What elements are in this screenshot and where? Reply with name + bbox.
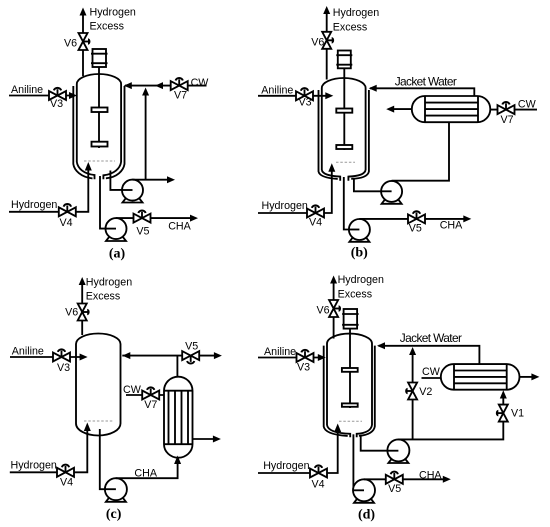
svg-text:Hydrogen: Hydrogen [333, 7, 379, 19]
wire hydrogen-excess vent (a) [82, 15, 84, 77]
jacket right wall (d) [359, 346, 375, 436]
heat exchanger E1 tube 2 (b) [425, 108, 478, 110]
svg-text:CHA: CHA [168, 221, 191, 233]
wire pump P1 discharge to exchanger (b) [392, 122, 449, 181]
valve V6 (d) [329, 300, 341, 317]
svg-text:Excess: Excess [90, 21, 124, 33]
wire aniline feed (d) [258, 357, 318, 359]
node arrow CHA out (a) [190, 215, 198, 222]
node arrow aniline into vessel (a) [69, 92, 77, 99]
svg-text:V5: V5 [136, 226, 149, 238]
vessel R1 dished bottom right (a) [103, 162, 121, 179]
svg-text:Jacket Water: Jacket Water [395, 74, 457, 88]
svg-text:V7: V7 [174, 90, 187, 102]
impeller paddle lower (d) [342, 403, 358, 406]
liquid level dashes (d) [339, 420, 362, 422]
wire hydrogen feed (d) [258, 431, 338, 473]
svg-text:V5: V5 [409, 223, 422, 235]
wire condenser outlet right (c) [193, 438, 214, 440]
pump P2 base (a) [106, 235, 126, 242]
pump P1 base (b) [382, 197, 402, 204]
node arrow condenser outlet (c) [213, 436, 221, 443]
node arrow V2 riser up (d) [409, 347, 416, 355]
svg-text:V4: V4 [60, 477, 73, 489]
motor M (a) [91, 49, 108, 67]
wire exchanger outlet right (d) [520, 376, 532, 378]
node arrow into exchanger bottom (d) [500, 390, 507, 398]
vessel R1 dished bottom right (b) [348, 170, 365, 181]
valve V5 (a) [134, 210, 151, 222]
valve V7 (c) [142, 387, 159, 399]
svg-text:(b): (b) [351, 246, 368, 261]
valve V4 (b) [307, 205, 324, 217]
svg-text:V4: V4 [60, 217, 73, 229]
valve V7 (b) [498, 102, 515, 114]
vessel R1 dished bottom left (a) [77, 162, 95, 179]
wire hydrogen feed (b) [258, 171, 332, 213]
node arrow hydrogen into vessel (b) [328, 163, 335, 172]
node arrow CHA out (d) [443, 476, 451, 483]
wire column bottoms to pump (c) [100, 429, 105, 489]
impeller paddle upper (b) [336, 109, 352, 113]
wire exchanger outlet left (b) [394, 108, 412, 110]
svg-text:(c): (c) [106, 507, 122, 522]
pump P1 base (d) [388, 457, 408, 464]
heat exchanger E1 tubesheet right (b) [477, 96, 479, 122]
wire hydrogen-excess vent (d) [333, 283, 335, 339]
agitator shaft (a) [98, 67, 100, 148]
valve V3 (d) [297, 350, 314, 362]
condenser E1 shell (c) [164, 377, 193, 458]
wire jacket water line (b) [370, 88, 474, 96]
agitator shaft (b) [343, 68, 345, 150]
wire recirc second outlet to pump P1 (b) [354, 178, 381, 191]
condenser E1 tube 3 (c) [181, 391, 183, 445]
pump P1 (b) [381, 181, 402, 202]
svg-text:Jacket Water: Jacket Water [400, 331, 462, 345]
svg-text:V3: V3 [57, 362, 70, 374]
vessel R1 body (a) [77, 74, 121, 162]
wire condenser feed drop (c) [176, 356, 178, 378]
wire pump P1 inlet stub (c) [105, 488, 116, 490]
node arrow vent up (b) [323, 6, 330, 14]
valve V2 (d) [405, 383, 417, 400]
wire pump discharge CHA to condenser (c) [116, 463, 178, 478]
svg-text:Aniline: Aniline [264, 346, 296, 358]
svg-text:Excess: Excess [333, 21, 367, 33]
heat exchanger E1 tubesheet left (d) [453, 364, 455, 390]
node arrow into condenser bottom (c) [174, 456, 181, 465]
node arrow aniline into vessel (b) [325, 92, 333, 99]
vessel R1 dished bottom left (b) [322, 170, 340, 181]
svg-text:Excess: Excess [86, 291, 120, 303]
wire top product line (c) [122, 355, 214, 357]
jacket right wall (b) [351, 90, 369, 179]
pump P1 base (c) [106, 495, 126, 502]
svg-text:CHA: CHA [419, 470, 442, 482]
pump P2 (b) [349, 219, 370, 240]
wire pump P2 inlet stub (a) [106, 228, 117, 230]
wire CW inlet (b) [490, 109, 537, 111]
pump P1 (c) [105, 478, 127, 500]
node arrow vent up (c) [79, 277, 86, 285]
valve V4 (d) [310, 465, 327, 477]
vessel R1 body (b) [322, 78, 366, 170]
svg-text:CW: CW [123, 384, 142, 396]
node arrow hydrogen into vessel (d) [334, 424, 341, 433]
node arrow into column top (c) [122, 352, 130, 359]
svg-text:Aniline: Aniline [261, 84, 293, 96]
condenser E1 tubesheet bottom (c) [164, 443, 193, 445]
svg-text:CW: CW [191, 77, 210, 89]
node arrow jacket water into jacket (b) [369, 85, 377, 92]
svg-text:(d): (d) [358, 508, 375, 523]
impeller paddle upper (a) [92, 108, 108, 113]
wire V2 riser (d) [412, 354, 414, 439]
wire V1 to exchanger (d) [502, 398, 504, 405]
heat exchanger E1 tube 3 (b) [425, 115, 478, 117]
node arrow P1 discharge out (a) [167, 176, 175, 183]
condenser E1 tubesheet top (c) [164, 390, 193, 392]
svg-text:V7: V7 [501, 114, 514, 126]
svg-text:Aniline: Aniline [12, 345, 44, 357]
wire pump P1 inlet stub (a) [122, 189, 133, 191]
svg-text:Hydrogen: Hydrogen [338, 274, 384, 286]
jacket left wall (b) [319, 90, 338, 179]
svg-text:Hydrogen: Hydrogen [86, 276, 132, 288]
valve V4 (c) [57, 465, 74, 477]
wire pump P2 inlet stub (b) [349, 229, 359, 231]
pump P1 (a) [122, 180, 143, 201]
valve V3 (c) [53, 349, 70, 361]
svg-text:Hydrogen: Hydrogen [90, 6, 136, 18]
liquid level dashes (a) [84, 160, 115, 162]
impeller paddle lower (a) [92, 142, 108, 147]
liquid level dashes (c) [84, 420, 114, 422]
node arrow hydrogen into column (c) [84, 423, 91, 432]
node arrow exchanger outlet (b) [386, 106, 394, 113]
svg-text:Aniline: Aniline [11, 84, 43, 96]
impeller paddle lower (b) [336, 145, 352, 149]
svg-text:V3: V3 [297, 362, 310, 374]
vessel R1 dished bottom right (d) [357, 425, 372, 437]
wire pump P2 discharge (b) [359, 218, 463, 220]
heat exchanger E1 tubesheet left (b) [424, 96, 426, 122]
condenser E1 tube 2 (c) [174, 391, 176, 445]
wire pump P1 suction (a) [110, 171, 122, 190]
valve V5 (b) [408, 211, 425, 223]
svg-text:Excess: Excess [338, 288, 372, 300]
valve V1 (d) [496, 405, 508, 422]
svg-text:Hydrogen: Hydrogen [11, 459, 57, 471]
wire hydrogen-excess vent (b) [326, 13, 328, 80]
svg-text:Hydrogen: Hydrogen [262, 200, 308, 212]
column C1 body (c) [76, 334, 121, 436]
motor M (b) [336, 51, 352, 69]
svg-text:V1: V1 [511, 407, 524, 419]
wire jacket water line (d) [379, 346, 480, 364]
node arrow CW into jacket (a) [124, 82, 132, 89]
condenser E1 tube 1 (c) [168, 391, 170, 445]
node arrow jacket water into jacket (d) [377, 342, 385, 349]
svg-text:Hydrogen: Hydrogen [263, 460, 309, 472]
pump P2 base (b) [349, 235, 369, 242]
valve V6 (b) [322, 32, 334, 49]
wire aniline feed (b) [258, 95, 326, 97]
svg-text:CW: CW [518, 99, 537, 111]
wire hydrogen feed (c) [10, 430, 88, 472]
wire recirc second outlet to pump P1 (d) [361, 435, 388, 451]
node arrow aniline into column (c) [80, 354, 88, 361]
svg-text:V5: V5 [388, 483, 401, 495]
heat exchanger E1 tube 1 (d) [454, 370, 507, 372]
pump P1 (d) [387, 439, 409, 461]
svg-text:V5: V5 [185, 340, 198, 352]
pump P2 (d) [353, 479, 375, 501]
wire pump P2 discharge (d) [364, 478, 443, 480]
valve V6 (c) [78, 304, 90, 321]
svg-text:V6: V6 [311, 36, 324, 48]
svg-text:V3: V3 [50, 98, 63, 110]
wire pump P1 discharge (d) [398, 421, 503, 439]
impeller paddle upper (d) [342, 368, 358, 372]
heat exchanger E1 shell (b) [412, 96, 491, 122]
svg-text:V4: V4 [309, 217, 322, 229]
vessel R1 body (d) [327, 334, 372, 425]
jacket right wall (a) [106, 86, 125, 178]
wire recirculation riser (a) [145, 95, 147, 180]
liquid level dashes (b) [336, 161, 355, 163]
node arrow hydrogen into vessel (a) [85, 162, 92, 171]
node arrow V5 out (c) [214, 352, 222, 359]
svg-text:Hydrogen: Hydrogen [11, 199, 57, 211]
condenser E1 tube 4 (c) [187, 391, 189, 445]
svg-text:V6: V6 [317, 304, 330, 316]
svg-text:V7: V7 [144, 399, 157, 411]
node arrow CW mid (a) [155, 82, 163, 89]
node arrow vent up (a) [80, 8, 87, 16]
agitator shaft (d) [349, 329, 351, 408]
valve V3 (a) [49, 88, 66, 100]
jacket left wall (a) [73, 86, 92, 178]
svg-text:V4: V4 [312, 479, 325, 491]
vessel R1 dished bottom left (d) [327, 425, 350, 437]
heat exchanger E1 shell (d) [441, 364, 520, 390]
svg-text:V2: V2 [419, 386, 432, 398]
pump P1 base (a) [123, 196, 143, 203]
valve V3 (b) [296, 88, 313, 100]
wire aniline feed (c) [10, 356, 80, 358]
jacket left wall (d) [324, 346, 348, 436]
heat exchanger E1 tube 3 (d) [454, 382, 507, 384]
pump P2 (a) [106, 218, 127, 239]
svg-text:V6: V6 [65, 306, 78, 318]
valve V7 (a) [171, 78, 188, 90]
node arrow riser up (a) [142, 88, 149, 96]
wire vessel bottom outlet to pump (d) [352, 434, 354, 490]
svg-text:CHA: CHA [134, 468, 157, 480]
valve V4 (a) [59, 204, 76, 216]
valve V6 (a) [79, 33, 91, 50]
pump P2 base (d) [354, 496, 374, 503]
node arrow exchanger outlet (d) [531, 373, 539, 380]
wire pump P2 inlet stub (d) [353, 489, 364, 491]
wire CW inlet (d) [422, 377, 441, 379]
svg-text:V3: V3 [299, 97, 312, 109]
heat exchanger E1 tubesheet right (d) [506, 364, 508, 390]
wire hydrogen feed (a) [9, 170, 88, 212]
heat exchanger E1 tube 2 (d) [454, 376, 507, 378]
valve V5 (d) [386, 472, 403, 484]
svg-text:CHA: CHA [440, 219, 463, 231]
wire vessel bottom outlet to pump (a) [100, 176, 106, 229]
svg-text:(a): (a) [109, 247, 126, 262]
wire pump P2 discharge (a) [116, 217, 191, 219]
svg-text:V6: V6 [64, 38, 77, 50]
svg-text:CW: CW [422, 366, 441, 378]
heat exchanger E1 tube 1 (b) [425, 102, 478, 104]
wire CW inlet (c) [126, 394, 164, 396]
wire CW line (a) [125, 85, 207, 87]
wire pump P1 discharge (a) [133, 179, 168, 181]
node arrow aniline into vessel (d) [318, 354, 326, 361]
wire vessel bottom outlet to pump (b) [344, 177, 349, 230]
wire hydrogen-excess vent (c) [81, 284, 83, 335]
valve V5 (c) [182, 351, 199, 363]
wire pump P1 inlet stub (d) [387, 450, 398, 452]
motor M (d) [342, 309, 359, 329]
node arrow vent up (d) [330, 276, 337, 284]
wire aniline feed (a) [9, 95, 71, 97]
node arrow CHA out (b) [463, 215, 471, 222]
wire pump P1 inlet stub (b) [381, 190, 392, 192]
